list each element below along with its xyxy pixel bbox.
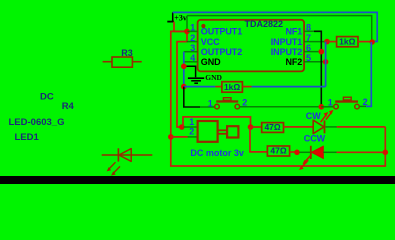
svg-text:47Ω: 47Ω [270,146,286,156]
pin 8 NF1 [285,23,314,37]
wire red down to lower 47R [250,127,267,152]
pin 5 NF2 [285,53,325,67]
resistor R2 1k right [327,37,372,47]
svg-text:OUTPUT1: OUTPUT1 [201,27,242,37]
svg-text:1: 1 [208,98,213,108]
node pin1 junction [184,29,190,35]
svg-text:TDA2822: TDA2822 [245,19,284,29]
wire blue feedback rail right [252,86,326,88]
svg-text:NF1: NF1 [285,27,302,37]
node pin7 junction [324,39,330,45]
svg-text:8: 8 [306,23,311,33]
wire green stub motor pin1 [184,126,198,128]
wire red outer loop [171,31,385,166]
svg-text:OUTPUT2: OUTPUT2 [201,47,242,57]
svg-text:5: 5 [306,53,311,63]
resistor R3 [103,48,142,67]
pin 6 INPUT2 [271,43,322,57]
wire green vertical to pin1 node [186,16,188,32]
LED D2 CCW [299,134,326,171]
svg-text:6: 6 [306,43,311,53]
wire green CCW stub left [300,151,311,153]
node mid button junction [319,104,325,110]
svg-text:GND: GND [205,73,222,82]
wire blue pin3 down [183,52,185,87]
wire red motor pin2 [171,136,188,138]
node motor pin1 junction [179,124,185,130]
node right 1k junction [370,39,375,44]
svg-text:1: 1 [328,97,333,107]
window edge bar [0,176,395,184]
node 47R junction [248,124,254,130]
wire green top rail [187,16,372,42]
wire red pin1 to pin2 to left vertical [177,31,187,127]
svg-text:GND: GND [201,57,221,67]
op-amp U1 TDA2822 body [198,19,305,71]
node feedback rail junction [181,84,187,90]
node gnd junction [181,64,187,70]
svg-text:LED-0603_G: LED-0603_G [9,117,65,128]
svg-text:1: 1 [190,23,195,33]
resistor R5 47R upper [251,122,314,132]
svg-text:DC motor 3v: DC motor 3v [190,148,244,158]
wire red motor node up over to 47R [183,117,251,127]
pin 7 INPUT1 [271,33,327,47]
resistor R1 1k left [215,82,251,93]
svg-text:2: 2 [189,126,194,136]
svg-text:+3v: +3v [174,14,187,23]
svg-text:4: 4 [190,53,195,63]
pushbutton SW1 [208,98,248,109]
pin 1 OUTPUT1 [188,23,243,37]
LED D3 unplaced [102,148,153,175]
svg-text:3: 3 [190,43,195,53]
wire black pin8 down [314,31,321,107]
wire red CW row to loop [337,126,386,128]
svg-text:2: 2 [363,97,368,107]
node loop CCW junction [383,150,389,156]
pin 2 VCC [187,33,221,47]
wire green CCW stub right [323,151,336,153]
svg-text:VCC: VCC [201,37,220,47]
svg-text:NF2: NF2 [285,57,302,67]
wire red +3v to pin1 node [174,22,187,32]
pin 3 OUTPUT2 [184,43,242,57]
motor M1 DC motor 3v [189,117,244,158]
svg-text:2: 2 [190,33,195,43]
LED D1 CW [306,110,334,134]
wire blue top rail [173,12,378,41]
wire blue pin7 node down to feedback rail [325,42,327,87]
power flag +3v [167,12,187,22]
node pin5 junction [323,59,329,65]
wire blue feedback rail [184,86,216,88]
wire red CCW row to loop [337,151,386,153]
wire green stub SW1 pin1 [200,106,215,108]
svg-text:1kΩ: 1kΩ [224,82,240,92]
svg-text:INPUT1: INPUT1 [271,37,303,47]
svg-text:CCW: CCW [304,134,326,144]
resistor R6 47R lower [267,146,297,156]
wire green CW led stub [326,126,337,128]
svg-text:R4: R4 [62,101,75,112]
node outer loop motor junction [168,134,174,140]
pushbutton SW2 [328,97,368,109]
wire green stub motor pin2 [188,136,198,138]
wire green to SW2 pin1 [321,106,333,108]
svg-text:DC: DC [40,91,54,102]
node pin6 junction [319,49,325,55]
svg-text:1kΩ: 1kΩ [339,37,355,47]
wire blue right vertical to button [366,42,371,106]
svg-text:7: 7 [306,33,311,43]
wire green SW2 pin2 stub [359,105,366,107]
svg-text:LED1: LED1 [15,132,40,143]
wire green SW1 pin2 to mid node [240,106,322,108]
svg-text:INPUT2: INPUT2 [271,47,303,57]
ground symbol [184,66,204,83]
pin 4 GND [185,53,222,67]
svg-text:47Ω: 47Ω [264,122,280,132]
node CCW left junction [294,150,300,156]
wire black to button SW1 [184,87,200,107]
